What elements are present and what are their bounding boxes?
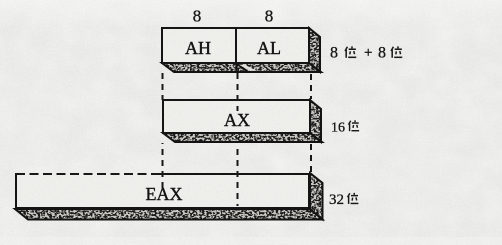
AL box bottom shadow [236, 63, 321, 72]
EAX dashed top-left edge [16, 173, 161, 175]
register AL front face [236, 28, 309, 63]
EAX solid borders (left, bottom, right, top-right run) [16, 173, 309, 208]
register EAX front face [15, 173, 310, 209]
EAX box bottom shadow [15, 209, 323, 220]
dashed guide line middle lower [237, 144, 239, 206]
dashed guide line left upper [162, 73, 164, 100]
dashed guide line left lower [162, 143, 164, 190]
label 16位 [331, 120, 359, 135]
AH box bottom shadow [162, 63, 248, 72]
register AH front face [162, 28, 236, 63]
register AX front face [163, 100, 310, 133]
AX box right face [310, 100, 321, 142]
AX box bottom shadow [163, 133, 322, 142]
EAX box right face [310, 173, 323, 220]
divider through shadow [235, 63, 237, 73]
dashed guide line middle upper [237, 73, 239, 111]
AL box right face [309, 28, 320, 72]
dashed guide line right lower [310, 144, 312, 172]
white wedge at AL shadow start [239, 65, 257, 71]
label 32位 [329, 192, 358, 208]
shadow outlines [15, 28, 323, 220]
dashed guide line right upper [310, 74, 312, 99]
label 8位 + 8位 [330, 45, 402, 62]
